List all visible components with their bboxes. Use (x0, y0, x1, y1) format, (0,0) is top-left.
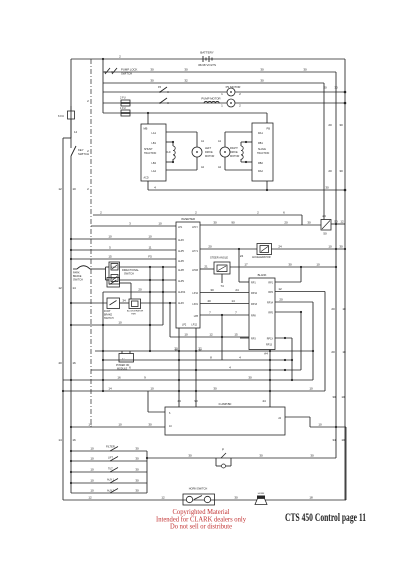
wire steer row (200, 265, 214, 270)
svg-text:10: 10 (90, 447, 94, 451)
svg-text:1: 1 (221, 104, 223, 108)
svg-text:RP13: RP13 (266, 344, 273, 347)
wire battery positive bus (71, 58, 345, 60)
svg-text:RP1: RP1 (268, 282, 273, 285)
svg-text:5: 5 (109, 246, 111, 250)
svg-text:12: 12 (278, 287, 282, 291)
svg-text:RP2: RP2 (268, 291, 273, 294)
PMB pin R1 (246, 142, 263, 145)
wire inverter-blank row 303 (200, 299, 249, 304)
wire filter bracket (146, 451, 148, 493)
page caption (285, 512, 366, 524)
damp label (219, 402, 232, 406)
svg-text:3: 3 (129, 222, 131, 226)
wire card drop 196 (196, 328, 202, 407)
wire row 250 left (70, 246, 176, 252)
svg-text:2: 2 (195, 211, 197, 215)
wire row 380 (63, 376, 313, 382)
svg-text:SWITCH: SWITCH (104, 317, 114, 320)
wire directional bracket (106, 267, 110, 280)
wire mcb top pin (147, 113, 149, 124)
svg-text:LP1B: LP1B (192, 269, 198, 272)
wire pump lock row (103, 71, 336, 73)
wire junction col 163 (162, 267, 164, 325)
svg-text:30: 30 (150, 68, 154, 72)
svg-text:30: 30 (325, 186, 329, 190)
svg-text:RP1X: RP1X (267, 338, 274, 341)
fuse FU6 (58, 106, 75, 124)
wire row 391 (62, 387, 325, 393)
wire damp right out (285, 417, 346, 428)
svg-text:30: 30 (150, 79, 154, 83)
svg-text:4: 4 (154, 186, 156, 190)
switch S3 (158, 85, 169, 93)
svg-text:90: 90 (194, 399, 198, 403)
wire left feed vertical (70, 59, 72, 138)
svg-text:LP12: LP12 (192, 292, 198, 295)
svg-text:10: 10 (118, 321, 122, 325)
svg-text:8: 8 (210, 356, 212, 360)
svg-text:12: 12 (58, 286, 62, 290)
fuse FU1 (120, 106, 130, 116)
svg-text:24: 24 (240, 254, 244, 258)
svg-text:2: 2 (257, 211, 259, 215)
svg-text:40: 40 (207, 299, 211, 303)
svg-text:16: 16 (72, 438, 76, 442)
MCB pin S2 (152, 162, 173, 165)
pump lock label (121, 68, 138, 76)
svg-text:20: 20 (284, 221, 288, 225)
labels row83 (150, 79, 264, 83)
svg-text:30: 30 (259, 454, 263, 458)
wire mcb bottom pin (144, 177, 149, 191)
svg-text:LP2: LP2 (182, 324, 187, 327)
svg-text:6: 6 (169, 412, 171, 415)
svg-text:30: 30 (148, 423, 152, 427)
svg-text:D.AMP.BD: D.AMP.BD (219, 402, 232, 406)
svg-text:4: 4 (239, 356, 241, 360)
svg-text:10: 10 (150, 387, 154, 391)
svg-text:FLD: FLD (166, 151, 171, 154)
wire row 351 (95, 347, 313, 353)
svg-text:RP3: RP3 (251, 338, 256, 341)
wire label LB (309, 496, 313, 500)
ps motor label (226, 85, 241, 89)
park brake switch S5 (73, 266, 106, 282)
fuse FU2 (120, 96, 130, 107)
svg-text:SWITCH: SWITCH (121, 72, 132, 76)
svg-text:30: 30 (135, 468, 139, 472)
svg-text:12: 12 (340, 220, 344, 224)
MCB pin LA1 (152, 132, 197, 135)
wire row 325 (70, 321, 163, 327)
svg-text:A1: A1 (201, 140, 205, 143)
wire top drop bus (102, 58, 104, 113)
svg-text:44: 44 (262, 399, 266, 403)
directional switch label (122, 269, 139, 276)
wire row 259 left (70, 255, 176, 261)
svg-text:F5: F5 (158, 85, 162, 89)
svg-text:40: 40 (58, 361, 62, 365)
svg-text:LP1: LP1 (178, 226, 183, 229)
junction mcb feed (147, 112, 149, 114)
svg-text:30: 30 (260, 79, 264, 83)
svg-text:14: 14 (74, 130, 78, 134)
svg-text:BATTERY: BATTERY (200, 51, 214, 55)
labels row72 (150, 68, 307, 72)
steer angle box (214, 262, 230, 288)
svg-text:10: 10 (118, 423, 122, 427)
svg-text:ALP2: ALP2 (178, 302, 185, 305)
svg-text:30: 30 (288, 263, 292, 267)
svg-text:10: 10 (148, 235, 152, 239)
foot brake row wire (70, 302, 107, 304)
power on module (119, 351, 134, 362)
svg-text:SWITCH: SWITCH (73, 279, 83, 282)
wire col 222 (221, 314, 223, 360)
svg-text:6: 6 (283, 211, 285, 215)
pump motor label (201, 97, 220, 101)
wire left col 103 lower (102, 292, 104, 392)
MCB label (144, 127, 157, 156)
field coil L2 (166, 141, 175, 163)
wire pump motor row (103, 102, 345, 104)
filter bank label (106, 445, 115, 449)
svg-text:INVERTER: INVERTER (181, 217, 195, 221)
svg-text:9: 9 (144, 376, 146, 380)
svg-text:30: 30 (248, 376, 252, 380)
pump motor M2 (221, 99, 241, 108)
svg-text:FILTER: FILTER (106, 445, 115, 449)
inverter right pin labels (182, 226, 199, 327)
wire bottom return (63, 496, 346, 501)
svg-text:17: 17 (244, 263, 248, 267)
svg-text:30: 30 (303, 68, 307, 72)
svg-text:10: 10 (169, 425, 172, 428)
foot brake switch box (107, 298, 120, 309)
svg-text:30: 30 (339, 123, 343, 127)
horn switch assembly (183, 494, 215, 505)
wire damp left pin1 (148, 391, 165, 412)
svg-text:30: 30 (213, 387, 217, 391)
wire negative return (148, 186, 346, 192)
wire fwd row (120, 266, 177, 268)
svg-text:10: 10 (90, 479, 94, 483)
PMB pin RA2 (225, 170, 263, 173)
inverter label (181, 217, 195, 221)
horn contactor box (129, 299, 141, 309)
svg-text:10: 10 (342, 350, 346, 354)
svg-text:SLAVE: SLAVE (258, 148, 266, 151)
svg-text:12: 12 (58, 187, 62, 191)
svg-text:21: 21 (204, 265, 208, 269)
blank right pin labels (266, 282, 274, 347)
labels right buses top (323, 86, 346, 355)
right field coil L3 (241, 141, 247, 163)
wire brake link (120, 299, 130, 304)
svg-text:30: 30 (334, 86, 338, 90)
filter row5 AUX2 (71, 489, 147, 494)
svg-text:LEFT: LEFT (205, 147, 212, 150)
wire row 226 left (91, 222, 176, 227)
wire row 83 (103, 82, 324, 84)
svg-text:15: 15 (108, 255, 112, 259)
svg-text:TMR: TMR (131, 314, 136, 316)
svg-text:A1: A1 (218, 140, 222, 143)
inverter left pin labels (178, 226, 186, 305)
svg-text:30: 30 (339, 169, 343, 173)
svg-text:RIGHT: RIGHT (230, 147, 238, 150)
svg-text:10: 10 (318, 423, 322, 427)
svg-text:30: 30 (135, 447, 139, 451)
svg-text:+ -: + - (122, 357, 125, 360)
horn button bypass (216, 448, 231, 469)
svg-text:14: 14 (231, 299, 235, 303)
amplifier card DAMP (165, 407, 285, 435)
svg-text:DRIVE: DRIVE (230, 151, 238, 154)
wire rev row (120, 279, 177, 281)
svg-text:30: 30 (174, 348, 178, 352)
svg-text:4: 4 (229, 366, 231, 370)
svg-text:MOTOR: MOTOR (230, 155, 239, 158)
svg-text:30: 30 (234, 496, 238, 500)
relay K1 right wires (331, 220, 345, 225)
svg-text:20: 20 (208, 245, 212, 249)
MCB pin LA2 (152, 170, 197, 173)
svg-text:RA1: RA1 (258, 132, 263, 135)
wire pmb top pin (266, 113, 268, 123)
svg-text:11: 11 (148, 246, 151, 250)
inductor L1 (204, 101, 219, 103)
wire accel tap (239, 249, 249, 282)
svg-text:RP14: RP14 (267, 302, 274, 305)
svg-text:PUMP MOTOR: PUMP MOTOR (201, 97, 220, 101)
svg-text:PB: PB (267, 127, 271, 131)
svg-text:F5: F5 (148, 255, 152, 259)
horn contactor label (127, 310, 144, 316)
battery B1 symbol (203, 56, 212, 62)
svg-text:SHUNT: SHUNT (144, 148, 153, 151)
svg-text:30: 30 (184, 68, 188, 72)
svg-text:MB: MB (144, 127, 148, 131)
svg-text:10: 10 (90, 457, 94, 461)
svg-text:14: 14 (58, 438, 62, 442)
svg-text:10: 10 (309, 387, 313, 391)
svg-text:34: 34 (332, 438, 336, 442)
junction ps motor bus (344, 91, 347, 94)
svg-text:10: 10 (108, 235, 112, 239)
filter row3 TILT (70, 468, 147, 474)
svg-text:7: 7 (209, 311, 211, 315)
svg-text:10: 10 (341, 438, 345, 442)
wire filter out row (147, 454, 336, 459)
svg-text:32: 32 (184, 79, 188, 83)
wire card drop 179 (174, 328, 179, 407)
wire blank pin 302 (275, 298, 314, 381)
svg-text:34: 34 (122, 299, 126, 303)
controller card INVERTER (176, 222, 200, 328)
wire row 360 (102, 356, 292, 362)
option card BLANK (249, 278, 275, 350)
svg-text:LP12: LP12 (191, 324, 197, 327)
svg-text:A2: A2 (218, 166, 222, 169)
wire left cols labels (58, 99, 89, 442)
ps motor M1 (221, 88, 241, 96)
svg-text:50: 50 (323, 232, 327, 236)
accelerator label (252, 256, 271, 259)
svg-text:30: 30 (210, 288, 214, 292)
svg-text:1 FU: 1 FU (120, 106, 126, 110)
svg-text:20: 20 (328, 169, 332, 173)
svg-text:RB1: RB1 (258, 142, 263, 145)
wire label 14 (74, 130, 78, 134)
svg-text:30: 30 (310, 454, 314, 458)
wire row 370 (91, 366, 301, 372)
wire right bus 324 (323, 83, 325, 220)
svg-text:90: 90 (231, 221, 235, 225)
svg-text:24: 24 (278, 245, 282, 249)
svg-text:ACCELERATOR: ACCELERATOR (127, 310, 144, 313)
blank left pin labels (251, 282, 258, 341)
svg-text:LP8: LP8 (194, 315, 199, 318)
svg-text:ALP9: ALP9 (178, 280, 185, 283)
horn H1 (255, 493, 267, 505)
svg-text:TRACTION: TRACTION (144, 152, 156, 155)
svg-text:6: 6 (129, 366, 131, 370)
svg-text:Do not sell or distribute: Do not sell or distribute (170, 523, 232, 531)
damp pin labels (169, 399, 282, 428)
svg-text:16: 16 (72, 361, 76, 365)
svg-text:20: 20 (323, 86, 327, 90)
right motor labels (218, 140, 240, 169)
wire inverter-blank row 292 (200, 288, 249, 293)
left motor labels (201, 140, 214, 169)
wire col 346 bottom (345, 427, 347, 500)
svg-text:24: 24 (235, 288, 239, 292)
svg-text:18: 18 (309, 496, 313, 500)
svg-text:10: 10 (341, 395, 345, 399)
svg-text:MOTOR: MOTOR (205, 155, 214, 158)
foot brake label (104, 310, 114, 320)
svg-text:ALP2: ALP2 (178, 239, 185, 242)
svg-text:MODULE: MODULE (117, 367, 128, 370)
svg-text:1: 1 (221, 92, 223, 96)
svg-text:30: 30 (332, 395, 336, 399)
svg-text:30: 30 (135, 489, 139, 493)
svg-text:HORN SWITCH: HORN SWITCH (189, 487, 208, 491)
svg-text:20: 20 (328, 123, 332, 127)
wire junction col 150 (149, 267, 151, 352)
svg-text:A4: A4 (264, 352, 268, 356)
svg-text:10: 10 (342, 307, 346, 311)
PMB pin R2 (246, 162, 263, 165)
wire branch to second column (63, 138, 71, 500)
wire blank pin 338 (275, 337, 293, 381)
pump lock switch S2 (104, 68, 117, 74)
svg-text:24: 24 (278, 417, 281, 420)
svg-text:50: 50 (334, 220, 338, 224)
power on label (116, 364, 130, 370)
battery label (198, 51, 216, 68)
svg-text:TRACTION: TRACTION (257, 152, 269, 155)
seat switch box (107, 278, 120, 288)
svg-text:LB1: LB1 (152, 142, 157, 145)
filter row2 LIFT (70, 457, 147, 463)
svg-text:ALP24: ALP24 (178, 291, 186, 294)
svg-text:44: 44 (177, 399, 181, 403)
svg-text:32: 32 (198, 348, 202, 352)
key switch S1 (71, 124, 89, 156)
wire inverter supply row (200, 221, 321, 226)
svg-text:12: 12 (88, 496, 92, 500)
svg-text:10: 10 (158, 222, 162, 226)
svg-text:14: 14 (72, 286, 76, 290)
wire blank pin 292 (275, 287, 325, 391)
PMB label (257, 127, 270, 156)
junction pump motor bus (344, 102, 347, 105)
svg-text:30: 30 (260, 68, 264, 72)
blank label (258, 273, 267, 277)
svg-text:14: 14 (88, 423, 92, 427)
svg-text:LP1Y: LP1Y (192, 226, 198, 229)
wire row 239 left (70, 235, 176, 241)
wire filter row1 (70, 447, 147, 453)
wire accel out (272, 245, 347, 251)
wire col 337 lower (332, 391, 345, 458)
left drive motor M3 (192, 132, 202, 170)
svg-text:RB2: RB2 (258, 162, 263, 165)
wire key feed row (93, 211, 302, 226)
svg-text:LA1: LA1 (152, 132, 157, 135)
svg-text:HORN: HORN (258, 493, 265, 495)
svg-text:STEER ANGLE: STEER ANGLE (210, 256, 228, 260)
svg-text:30: 30 (339, 245, 343, 249)
svg-text:15: 15 (234, 333, 238, 337)
svg-text:7: 7 (235, 311, 237, 315)
filter row4 AUX1 (70, 479, 147, 485)
wire accel row (200, 245, 257, 251)
node label 2 (119, 55, 121, 59)
copyright text (156, 508, 246, 531)
wire seat row (120, 283, 132, 299)
svg-text:10: 10 (316, 263, 320, 267)
svg-text:2: 2 (87, 99, 89, 103)
svg-text:LPY1: LPY1 (192, 250, 199, 253)
svg-text:2: 2 (87, 187, 89, 191)
svg-text:LB2: LB2 (152, 162, 157, 165)
wire blank bottom pin (264, 350, 270, 408)
contactor panel PMB (252, 123, 273, 181)
svg-text:LIFT: LIFT (108, 457, 113, 460)
contactor panel MCB (141, 124, 166, 181)
svg-text:LP21: LP21 (192, 303, 198, 306)
svg-text:2: 2 (239, 104, 241, 108)
svg-text:DRIVE: DRIVE (205, 151, 213, 154)
wire col71 end (70, 450, 72, 493)
steer angle label (210, 256, 228, 260)
wire blank stub 338L (240, 337, 249, 339)
svg-text:74: 74 (220, 284, 224, 288)
svg-text:20: 20 (279, 298, 283, 302)
svg-text:14: 14 (108, 387, 112, 391)
wire steer out (230, 263, 337, 269)
MCB pin S1 (152, 142, 173, 145)
svg-text:30: 30 (135, 457, 139, 461)
svg-text:12: 12 (161, 496, 165, 500)
wire row 292 (103, 288, 176, 293)
svg-text:2: 2 (239, 92, 241, 96)
wire contactor feed row (103, 112, 267, 114)
